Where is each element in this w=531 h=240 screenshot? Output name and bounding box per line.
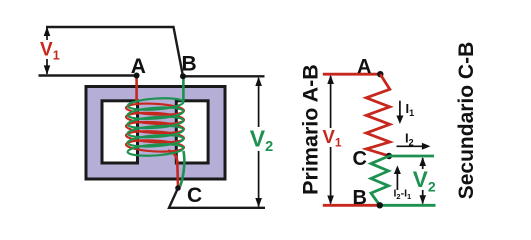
svg-text:C: C (353, 148, 367, 170)
measure arrow V2 (right figure) (412, 157, 435, 204)
label Primario A-B (299, 64, 323, 195)
wire: top line from V1 to B (left figure) (46, 27, 183, 76)
current arrow I1 (396, 101, 414, 124)
red wire top (right figure, node A feed) (323, 73, 381, 76)
node B (right figure) (353, 187, 383, 209)
red wire bottom (right figure, node B feed) (323, 204, 380, 207)
winding red (primary wire from A) (126, 76, 184, 187)
green wire from C to right (389, 155, 434, 158)
node A (left figure) (131, 55, 146, 79)
svg-text:B: B (182, 53, 197, 76)
svg-text:A: A (131, 55, 146, 78)
label V1 (left) (40, 40, 60, 63)
core (laminated core of autotransformer) (86, 87, 225, 180)
wire: lower-left line to node A (39, 74, 137, 76)
label V1 (right) (323, 126, 342, 150)
wire: from node B to right (left figure) (183, 75, 265, 77)
node C (right figure) (353, 148, 393, 170)
measure arrow V2 (left figure) (248, 77, 276, 207)
label V2 (left) (250, 126, 273, 156)
node B (left figure) (180, 53, 197, 80)
svg-text:B: B (353, 187, 367, 209)
green wire bottom right of B (380, 204, 436, 207)
svg-text:Primario A-B: Primario A-B (299, 64, 323, 195)
primary winding zigzag A-C (red) (366, 74, 390, 156)
winding green (secondary wire from B) (127, 76, 184, 187)
secondary winding zigzag C-B (green) (371, 156, 389, 205)
svg-text:Secundario C-B: Secundario C-B (455, 42, 478, 200)
wire: from node C down-right (left figure) (169, 188, 265, 208)
current arrow I2 (397, 131, 431, 150)
node C (left figure) (175, 184, 202, 207)
current arrow I2-I1 (394, 165, 412, 201)
measure arrow V1 (left figure) (38, 27, 64, 75)
node A (right figure) (357, 56, 383, 78)
label V2 (right) (413, 167, 436, 195)
svg-text:C: C (187, 184, 202, 207)
measure arrow V1 (right figure) (321, 75, 345, 205)
label Secundario C-B (455, 42, 478, 200)
svg-text:A: A (357, 56, 371, 78)
